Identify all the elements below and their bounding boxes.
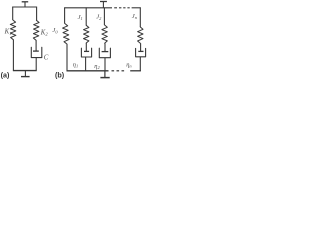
wire branch J0 top [64,7,66,23]
spring K1 (a left) [10,20,16,40]
bottom bar (b) solid left [67,70,109,72]
spring K2 (a right) [33,20,39,40]
svg-text:(a): (a) [1,70,10,79]
damper cup eta2 [99,48,110,58]
wire branch J2 top [103,7,105,25]
spring J2 [102,25,107,43]
wire below damper (a) [35,58,37,71]
top bar (b) solid left [64,7,112,9]
bottom end bar (a) [21,76,30,78]
top bar (b) solid right [132,7,141,9]
damper cup etan [136,48,146,56]
damper piston rod (a) [35,40,37,51]
damper cup eta1 [81,48,91,57]
damper piston plate eta1 [84,50,89,52]
damper piston plate (a) [33,50,39,52]
bottom bar (b) solid right [130,70,141,72]
damper rod J2 [104,43,106,51]
top bar (b) dashed [114,7,117,9]
wire right branch top (a) [36,7,38,21]
wire branch J0 bottom [66,44,68,71]
bottom stem (a) [24,71,26,77]
fixed support top (b) [100,1,107,3]
bottom bar (b) dashed [112,70,115,72]
svg-text:C: C [44,54,49,61]
damper rod J1 [85,43,87,51]
bottom bar (a) [13,70,37,72]
spring J1 [84,25,89,43]
wire left branch bottom (a) [12,40,14,71]
damper rod Jn [140,43,142,51]
svg-text:(b): (b) [55,70,65,79]
damper piston plate etan [138,50,143,52]
top bar (a) [12,6,37,8]
wire below damper eta2 [104,58,106,71]
wire below damper eta1 [85,57,87,71]
spring Jn [138,27,143,43]
bottom end bar (b) [100,77,109,79]
fixed support top (a) [22,1,29,3]
damper piston plate eta2 [102,51,109,53]
damper cup C (a) [31,47,42,57]
wire branch J1 top [85,7,87,25]
wire below damper etan [139,57,141,71]
wire left branch top (a) [12,7,14,20]
wire branch Jn top [139,7,141,27]
bottom stem (b) [104,71,106,78]
spring J0 [63,24,70,45]
